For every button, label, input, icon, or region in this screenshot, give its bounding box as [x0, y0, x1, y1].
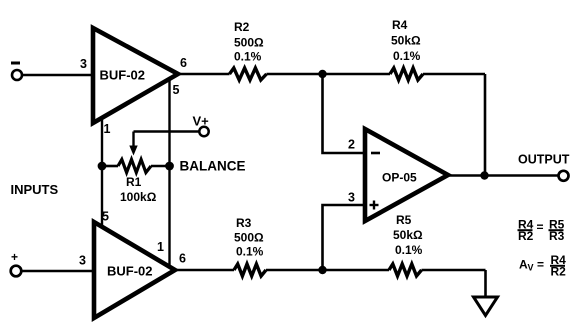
junction (output/feedback node) [480, 171, 488, 179]
node IN- minus label [11, 62, 20, 65]
junction (R1 left) [98, 162, 107, 171]
op-amp U2 BUF-02 (bottom buffer) [94, 222, 175, 318]
svg-text:BUF-02: BUF-02 [107, 264, 153, 279]
R5 value label [393, 213, 423, 257]
resistor R4 [390, 68, 423, 80]
wire (wiper to V+) [134, 130, 200, 132]
svg-text:2: 2 [348, 138, 355, 152]
potentiometer R1 [102, 160, 170, 173]
svg-text:3: 3 [348, 191, 355, 205]
op-amp U1 BUF-02 (top buffer) [93, 28, 178, 123]
wire [22, 270, 95, 273]
svg-text:BUF-02: BUF-02 [100, 68, 146, 83]
svg-text:0.1%: 0.1% [234, 50, 262, 64]
wire [323, 205, 366, 270]
junction (R1 right / BALANCE node) [165, 162, 174, 171]
svg-text:R3: R3 [236, 216, 252, 230]
svg-text:5: 5 [102, 210, 109, 224]
junction (R3/R5/pin3 node) [318, 266, 326, 274]
svg-text:R1: R1 [126, 175, 142, 189]
svg-text:R2: R2 [234, 20, 250, 34]
svg-text:V: V [528, 263, 534, 273]
formula R4/R2 = R5/R3 [518, 218, 565, 244]
wire [484, 270, 487, 296]
op-amp U3 OP-05 [365, 129, 448, 221]
wire [23, 74, 94, 77]
V+ terminal [199, 127, 208, 136]
svg-text:V+: V+ [193, 114, 210, 129]
svg-text:0.1%: 0.1% [395, 243, 423, 257]
wire (feedback vertical) [484, 74, 487, 176]
svg-text:50kΩ: 50kΩ [393, 228, 423, 242]
output terminal [559, 171, 569, 181]
wire [448, 174, 559, 177]
ground [474, 297, 498, 316]
wire [323, 74, 366, 153]
svg-text:1: 1 [157, 240, 164, 254]
svg-text:0.1%: 0.1% [393, 49, 421, 63]
R4 value label [391, 18, 421, 63]
wire [178, 73, 230, 76]
svg-text:R5: R5 [396, 213, 412, 227]
wire [267, 73, 391, 76]
input terminal IN+ [11, 266, 22, 277]
svg-text:3: 3 [79, 254, 86, 268]
junction (R2/R4/pin2 node) [318, 70, 326, 78]
wire [422, 269, 486, 272]
formula Av = R4/R2 [519, 253, 566, 279]
wire (U1 pin5 to U2 pin1) [168, 80, 170, 267]
svg-text:R2: R2 [551, 265, 567, 279]
svg-text:5: 5 [173, 83, 180, 97]
svg-text:BALANCE: BALANCE [180, 159, 246, 174]
R1 value label [120, 175, 157, 204]
svg-text:OP-05: OP-05 [382, 171, 417, 185]
svg-text:1: 1 [104, 122, 111, 136]
U3 inverting input symbol [371, 152, 380, 155]
svg-text:50kΩ: 50kΩ [391, 34, 421, 48]
resistor R5 [389, 264, 422, 276]
svg-text:=: = [537, 220, 544, 234]
svg-text:=: = [537, 258, 544, 272]
resistor R2 [230, 68, 267, 80]
R1 wiper arrow [129, 132, 137, 156]
svg-text:R4: R4 [392, 18, 408, 32]
R2 value label [234, 20, 264, 64]
svg-text:500Ω: 500Ω [234, 231, 264, 245]
wire [423, 73, 485, 76]
wire (U1 pin1 to U2 pin5) [101, 117, 103, 227]
U3 non-inverting input symbol [370, 201, 379, 210]
wire [266, 269, 389, 272]
svg-text:R3: R3 [549, 229, 565, 243]
svg-text:100kΩ: 100kΩ [120, 190, 157, 204]
input terminal IN- [12, 70, 22, 80]
svg-text:OUTPUT: OUTPUT [518, 153, 570, 167]
svg-text:R2: R2 [518, 229, 534, 243]
svg-text:INPUTS: INPUTS [11, 182, 59, 197]
svg-text:6: 6 [179, 252, 186, 266]
svg-text:0.1%: 0.1% [236, 245, 264, 259]
R3 value label [234, 216, 264, 259]
svg-text:3: 3 [80, 57, 87, 71]
svg-text:+: + [11, 250, 18, 264]
resistor R3 [234, 264, 266, 276]
svg-text:6: 6 [180, 56, 187, 70]
svg-text:500Ω: 500Ω [234, 36, 264, 50]
wire [175, 269, 234, 272]
